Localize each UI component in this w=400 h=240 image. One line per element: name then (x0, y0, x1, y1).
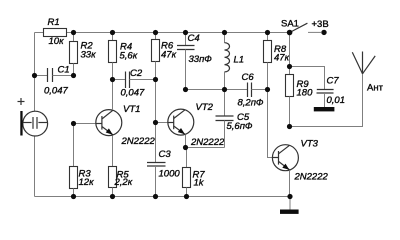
svg-text:2N2222: 2N2222 (190, 137, 225, 148)
node C2 right (153, 77, 158, 82)
svg-text:2N2222: 2N2222 (121, 136, 156, 147)
node L1 bottom (222, 87, 227, 92)
svg-text:C6: C6 (242, 72, 255, 83)
svg-text:Ант: Ант (367, 83, 384, 94)
node top rail R8 (265, 30, 270, 35)
switch SA1 (281, 19, 321, 33)
node top rail L1 (222, 30, 227, 35)
wire VT2 base (156, 122, 169, 124)
svg-text:8,2пФ: 8,2пФ (238, 98, 264, 109)
svg-text:47к: 47к (274, 53, 290, 64)
resistor R1 (44, 17, 67, 47)
transistor VT2 (168, 102, 225, 148)
capacitor C7 (290, 67, 346, 108)
capacitor C3 (147, 123, 180, 197)
svg-text:C1: C1 (58, 65, 70, 76)
svg-text:2N2222: 2N2222 (294, 172, 329, 183)
node bottom rail C3 (153, 194, 158, 199)
node top rail R6 (153, 30, 158, 35)
node VT3 collector (287, 124, 292, 129)
svg-text:0,047: 0,047 (44, 86, 68, 97)
wire VT2 base branch (155, 80, 157, 123)
wire VT3 emitter (289, 170, 291, 196)
svg-text:VT3: VT3 (301, 139, 319, 150)
svg-text:33к: 33к (81, 50, 97, 61)
node top rail R4 (110, 30, 115, 35)
svg-text:C3: C3 (159, 149, 172, 160)
node bottom rail VT3 emitter (287, 194, 292, 199)
svg-text:C2: C2 (130, 68, 143, 79)
svg-text:+3В: +3В (312, 19, 329, 30)
wire VT1 base (74, 123, 97, 125)
wire VT3 base branch (268, 90, 273, 158)
svg-text:0,01: 0,01 (327, 95, 346, 106)
microphone BM1 (18, 98, 48, 136)
node top rail R2 (71, 30, 76, 35)
node VT2 emitter (183, 145, 188, 150)
wire VT1 collector (112, 80, 114, 111)
transistor VT3 (272, 139, 328, 183)
wire VT2 emitter (185, 135, 187, 148)
resistor R3 (70, 124, 95, 197)
svg-text:2,2к: 2,2к (114, 177, 133, 188)
svg-text:180: 180 (297, 88, 314, 99)
capacitor C4 (177, 33, 212, 90)
resistor R4 (109, 33, 138, 80)
node C6 right (265, 87, 270, 92)
resistor R2 (70, 33, 97, 76)
node bottom rail R3 (71, 194, 76, 199)
svg-text:R1: R1 (48, 17, 60, 28)
node C2 left (110, 77, 115, 82)
resistor R5 (109, 136, 133, 197)
node C1 right (71, 73, 76, 78)
wire bottom rail (35, 196, 291, 198)
resistor R8 (264, 33, 290, 90)
svg-text:33пФ: 33пФ (189, 54, 213, 65)
wire collector node VT2 to L1 (186, 89, 225, 91)
svg-text:VT2: VT2 (196, 102, 214, 113)
svg-text:1000: 1000 (159, 169, 181, 180)
resistor R7 (183, 148, 206, 197)
terminal +3В (312, 19, 329, 35)
svg-text:L1: L1 (234, 55, 245, 66)
node VT2 base (153, 120, 158, 125)
transistor VT1 (96, 104, 156, 147)
node C1 left (32, 73, 37, 78)
svg-text:12к: 12к (79, 177, 95, 188)
svg-text:SA1: SA1 (281, 19, 299, 30)
resistor R9 (286, 32, 314, 126)
node top rail C4 (183, 30, 188, 35)
ground under C7 (314, 107, 335, 111)
inductor L1 (225, 33, 245, 90)
capacitor C1 (35, 65, 74, 97)
node SA1 junction (287, 30, 293, 36)
capacitor C2 (113, 68, 156, 99)
node bottom rail R5 (110, 194, 115, 199)
svg-text:1k: 1k (194, 178, 205, 189)
svg-text:C7: C7 (327, 76, 340, 87)
svg-text:47к: 47к (161, 50, 177, 61)
capacitor C5 (186, 90, 253, 148)
svg-text:5,6к: 5,6к (120, 51, 138, 62)
capacitor C6 (225, 72, 268, 109)
wire antenna feed (290, 74, 363, 127)
resistor R6 (152, 33, 177, 80)
node bottom rail R7 (184, 194, 189, 199)
svg-text:VT1: VT1 (123, 104, 140, 115)
ground under VT3 (280, 210, 299, 214)
wire ground stub (289, 197, 291, 210)
node VT2 collector (183, 87, 188, 92)
node R9 top (287, 64, 292, 69)
svg-text:0,047: 0,047 (121, 88, 145, 99)
wire top rail (35, 32, 290, 34)
node VT1 base (71, 121, 76, 126)
svg-text:C4: C4 (188, 33, 200, 44)
svg-text:5,6пФ: 5,6пФ (227, 121, 253, 132)
antenna (352, 52, 383, 94)
svg-text:10к: 10к (49, 36, 65, 47)
wire left rail (34, 33, 36, 197)
